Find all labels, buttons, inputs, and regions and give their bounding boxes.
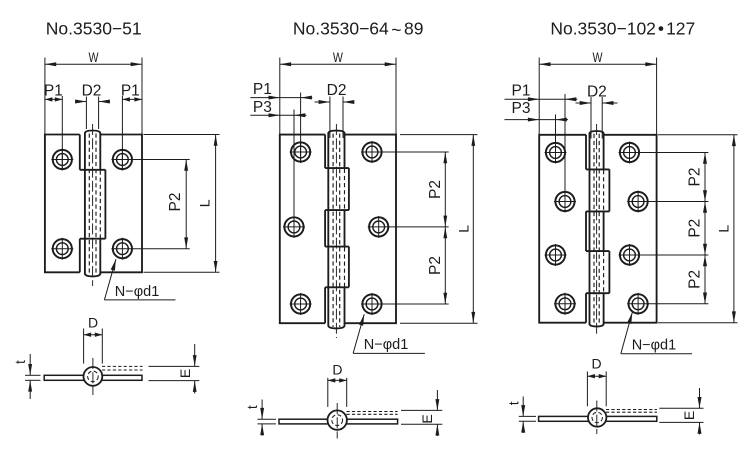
hinge3 pin centerline: [596, 124, 598, 336]
hinge1 pin top cap: [85, 131, 100, 134]
hinge1 left leaf plate: [45, 135, 80, 273]
hinge1 side knuckle circle: [84, 367, 103, 386]
svg-text:No.3530−102•127: No.3530−102•127: [550, 19, 695, 39]
svg-text:D: D: [332, 361, 342, 377]
svg-text:D: D: [592, 356, 602, 372]
hinge1 middle knuckle box right edge: [104, 170, 106, 239]
hinge3 dimension P3: [505, 100, 569, 164]
hinge3 dimension D2: [576, 83, 618, 138]
title No.3530-102.127: [550, 19, 695, 39]
hinge3 dimension P2 bottom: [648, 255, 708, 304]
hinge1 hole bottom-right: [111, 238, 133, 260]
hinge3 pin barrel left edge: [589, 133, 591, 325]
hinge2 side folded leaf hidden: [347, 412, 398, 415]
hinge2 hole top-left: [290, 141, 312, 163]
hinge2 hole middle-right: [368, 216, 390, 238]
hinge2 hidden barrel edges in knuckles: [344, 169, 346, 287]
hinge1 dimension L: [144, 135, 220, 273]
hinge1 dimension D2: [75, 82, 110, 129]
hinge3 side knuckle circle: [588, 408, 606, 426]
svg-text:L: L: [456, 225, 472, 233]
hinge1 label N-phi-d1: [104, 259, 175, 300]
hinge2 pin barrel right edge: [344, 133, 346, 327]
hinge3 hole row4-right: [627, 293, 649, 315]
hinge3 label N-phi-d1: [621, 312, 692, 353]
hinge3 knuckle box right edges: [608, 169, 610, 293]
hinge2 side leaf bar: [279, 419, 398, 424]
svg-text:P1: P1: [253, 81, 272, 98]
svg-text:D: D: [88, 314, 98, 330]
hinge1 knuckle step lines: [80, 170, 106, 239]
hinge3 hole row2-left: [554, 191, 576, 213]
svg-text:E: E: [681, 411, 697, 420]
hinge3 pin bottom cap: [590, 324, 604, 327]
hinge2 knuckle box right edges: [348, 168, 350, 287]
svg-text:P2: P2: [687, 270, 704, 289]
hinge2 dimension P3: [250, 99, 306, 218]
hinge1 side leaf bar: [44, 375, 142, 380]
hinge3 hidden barrel edges in knuckles: [603, 170, 605, 292]
svg-text:E: E: [419, 414, 435, 423]
hinge1 hole top-right: [111, 149, 133, 171]
svg-text:P3: P3: [253, 99, 272, 116]
svg-text:P2: P2: [427, 256, 444, 275]
svg-text:N−φd1: N−φd1: [632, 338, 676, 354]
hinge3 hidden pin edges: [594, 134, 599, 326]
hinge2 dimension P2 lower: [382, 227, 449, 304]
hinge2 knuckle step lines: [325, 168, 349, 287]
hinge1 dimension P2: [133, 160, 190, 249]
hinge3 side dimension D: [587, 356, 606, 407]
hinge2 right leaf plate: [345, 135, 397, 324]
svg-text:W: W: [89, 49, 100, 65]
hinge3 hole row4-left: [554, 293, 576, 315]
hinge2 pin top cap: [328, 131, 344, 134]
hinge1 pin centerline: [92, 124, 94, 286]
hinge3 side dimension E: [659, 388, 703, 435]
hinge2 dimension P1: [250, 81, 312, 163]
svg-text:W: W: [333, 49, 344, 65]
hinge2 hidden pin edges: [333, 134, 340, 327]
hinge3 knuckle step lines: [586, 169, 609, 293]
hinge1 side dimension E: [149, 344, 200, 394]
svg-text:W: W: [593, 49, 604, 65]
hinge2 side dimension t: [244, 400, 276, 436]
svg-text:No.3530−51: No.3530−51: [46, 19, 142, 39]
hinge3 right leaf plate: [604, 135, 657, 323]
hinge1 side dimension D: [84, 314, 103, 363]
svg-text:P2: P2: [687, 168, 704, 187]
hinge1 pin barrel left edge: [84, 133, 86, 275]
svg-text:D2: D2: [587, 83, 607, 100]
hinge3 hole row3-right: [619, 244, 641, 266]
hinge2 hole middle-left: [283, 216, 305, 238]
hinge1 right leaf plate: [100, 135, 142, 273]
svg-text:L: L: [196, 199, 212, 207]
hinge1 hidden barrel edge in middle knuckle: [99, 171, 101, 239]
hinge2 left leaf notch edge: [324, 135, 326, 324]
hinge1 hidden pin edges: [89, 134, 96, 275]
hinge1 pin bottom cap: [85, 273, 100, 276]
hinge1 dimension P1 left: [44, 82, 63, 170]
hinge3 dimension L: [658, 135, 738, 323]
hinge1 hole bottom-left: [51, 238, 73, 260]
hinge3 left leaf plate: [539, 135, 586, 323]
svg-text:D2: D2: [327, 82, 347, 99]
hinge3 dimension P1: [505, 82, 578, 212]
hinge1 hole top-left: [51, 149, 73, 171]
svg-text:E: E: [177, 369, 193, 378]
svg-text:P2: P2: [687, 219, 704, 238]
hinge2 side dimension E: [401, 390, 442, 436]
hinge1 left leaf notch edge: [79, 135, 81, 273]
hinge3 pin top cap: [590, 131, 604, 134]
svg-text:No.3530−64~89: No.3530−64~89: [293, 19, 424, 41]
hinge2 label N-phi-d1: [353, 314, 425, 353]
hinge3 hole row3-left: [545, 244, 567, 266]
hinge2 dimension P2 upper: [382, 152, 449, 227]
svg-text:P2: P2: [167, 193, 184, 212]
svg-text:N−φd1: N−φd1: [364, 337, 408, 353]
hinge2 dimension W: [280, 49, 396, 135]
svg-text:L: L: [715, 225, 731, 233]
hinge1 side pin centerline: [92, 358, 94, 395]
svg-text:P3: P3: [512, 100, 531, 117]
hinge3 dimension W: [539, 49, 656, 135]
hinge2 pin centerline: [335, 124, 337, 338]
hinge3 hole row2-right: [627, 191, 649, 213]
hinge3 hole row1-right: [619, 142, 641, 164]
hinge2 dimension L: [400, 135, 478, 324]
hinge3 left leaf notch edge: [585, 135, 587, 323]
hinge3 dimension P2 top: [640, 153, 709, 202]
hinge2 dimension D2: [315, 82, 355, 138]
hinge1 dimension W: [45, 49, 142, 135]
hinge2 side pin centerline: [336, 403, 338, 439]
svg-text:t: t: [244, 405, 260, 409]
title No.3530-51: [46, 19, 142, 39]
hinge3 side leaf bar: [539, 416, 657, 421]
hinge2 hole bottom-right: [361, 293, 383, 315]
svg-text:P1: P1: [121, 82, 140, 99]
hinge3 dimension P2 middle: [640, 202, 709, 256]
hinge3 pin barrel right edge: [603, 133, 605, 325]
hinge1 dimension P1 right: [121, 82, 142, 170]
hinge3 side dimension t: [506, 397, 536, 434]
hinge2 pin bottom cap: [328, 325, 344, 328]
svg-text:t: t: [12, 360, 28, 364]
hinge2 side knuckle circle: [328, 410, 347, 429]
svg-text:t: t: [506, 401, 522, 405]
hinge2 pin barrel left edge: [327, 133, 329, 327]
hinge2 left leaf plate: [280, 135, 325, 324]
hinge2 hole bottom-left: [290, 293, 312, 315]
hinge1 side dimension t: [12, 354, 40, 399]
hinge3 hole row1-left: [545, 142, 567, 164]
hinge1 side folded leaf hidden: [102, 366, 143, 370]
svg-text:P1: P1: [44, 82, 63, 99]
hinge2 hole top-right: [361, 141, 383, 163]
hinge2 side dimension D: [328, 361, 347, 407]
svg-text:P2: P2: [427, 180, 444, 199]
hinge1 pin barrel right edge: [99, 133, 101, 275]
hinge3 side folded leaf hidden: [606, 410, 657, 413]
hinge3 side pin centerline: [596, 401, 598, 435]
svg-text:N−φd1: N−φd1: [115, 284, 159, 300]
svg-text:P1: P1: [512, 82, 531, 99]
title No.3530-64~89: [293, 19, 424, 41]
